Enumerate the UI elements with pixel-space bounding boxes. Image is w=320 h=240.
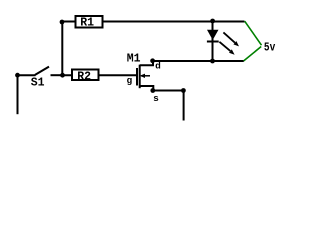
svg-text:g: g (127, 75, 133, 86)
svg-text:s: s (153, 93, 159, 104)
wire: green connector top leg (245, 21, 262, 45)
wire: vertical from node A down to switch node B (61, 22, 63, 75)
wire: green connector bottom leg (244, 47, 262, 61)
LED top junction dot (210, 19, 215, 24)
svg-text:M1: M1 (127, 52, 141, 65)
source junction dot (150, 88, 155, 93)
wire: node B through R2 to gate (63, 74, 137, 76)
gate bar (136, 68, 138, 86)
LED bottom junction dot (210, 59, 215, 64)
channel bar (139, 65, 141, 89)
wire: vertical drop from corner node (183, 91, 185, 121)
svg-text:R2: R2 (77, 70, 91, 83)
wire: source to corner node (153, 90, 184, 92)
drain lead (140, 61, 153, 66)
resistor R1 (76, 16, 103, 30)
node A junction dot (60, 20, 65, 25)
svg-text:S1: S1 (31, 77, 45, 90)
svg-text:R1: R1 (80, 17, 94, 30)
LED D1 (207, 22, 239, 62)
wire: top horizontal from node A to 5v connector (62, 21, 245, 23)
transistor M1 (127, 52, 162, 104)
source lead (140, 86, 154, 91)
switch S1 (18, 67, 63, 90)
wire: vertical below S1 left contact (17, 75, 19, 114)
emission arrow 2 (219, 42, 230, 51)
svg-text:d: d (155, 61, 161, 72)
corner node dot (181, 88, 186, 93)
bulk arrow (141, 75, 150, 77)
svg-text:5v: 5v (264, 40, 275, 54)
S1 left contact dot (15, 73, 20, 78)
node B junction dot (60, 73, 65, 78)
resistor R2 (72, 70, 99, 84)
drain junction dot (150, 58, 155, 63)
emission arrow 1 (223, 32, 235, 42)
wire: drain to LED bottom and on to 5v connector (153, 60, 244, 62)
